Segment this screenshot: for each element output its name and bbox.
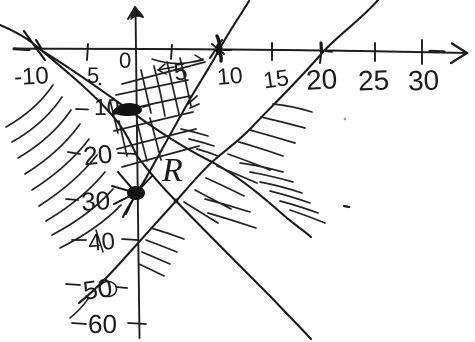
x-axis	[14, 44, 467, 64]
line L3 (steep line through x=10 down to (0,-30))	[123, 1, 249, 217]
label -20 (y axis)	[68, 152, 80, 154]
small dash mark	[344, 206, 349, 207]
star mark at (10,0)	[210, 36, 231, 61]
dash right of blob1	[143, 105, 150, 107]
svg-text:20: 20	[305, 63, 338, 96]
x tick +5	[171, 45, 172, 59]
svg-text:50: 50	[81, 272, 114, 306]
hatch fan lower-left of L1	[6, 85, 121, 248]
hatch strokes above La upper section	[181, 129, 218, 156]
svg-text:20: 20	[82, 139, 114, 172]
svg-text:60: 60	[88, 309, 117, 339]
y tick -20	[118, 153, 136, 154]
x tick 30	[421, 40, 423, 64]
star mark at (20,0)	[320, 43, 332, 63]
hatch comb above La lower-right	[240, 163, 325, 223]
y tick -40	[122, 239, 137, 240]
svg-text:15: 15	[261, 64, 290, 93]
y tick -50	[116, 287, 127, 288]
x tick 15	[271, 43, 273, 60]
svg-text:30: 30	[80, 185, 111, 217]
starburst blob at (0,-30)	[112, 172, 152, 214]
svg-text:-10: -10	[13, 62, 49, 91]
svg-text:5: 5	[87, 63, 99, 88]
y tick -60	[128, 323, 146, 324]
svg-text:10: 10	[216, 62, 244, 90]
flourish tail below -50	[70, 299, 88, 318]
label -30 (y axis)	[66, 199, 78, 200]
svg-text:40: 40	[87, 228, 116, 257]
svg-text:0: 0	[119, 48, 131, 73]
curved arrow near +5	[152, 55, 203, 74]
label -40 (y axis)	[72, 239, 86, 241]
hatch comb right of L2	[139, 104, 312, 276]
blob point at (0,-10)	[112, 103, 142, 116]
arrow barb on L3	[188, 96, 199, 108]
x tick 25	[374, 43, 376, 61]
faint dot	[344, 118, 347, 121]
hatch grid steep strokes near (0,-10)	[110, 58, 191, 161]
label -60 (y axis)	[72, 323, 86, 324]
hatch grid rails near (0,-10)	[113, 62, 205, 167]
line La (gentle line from x=-10 through (0,-10) to lower right)	[41, 50, 311, 237]
dot after 5	[99, 83, 102, 86]
y-axis	[128, 7, 143, 338]
ink knot at L1xL2 crossing	[174, 199, 179, 204]
line L2 (positive-slope line through x=20)	[79, 0, 378, 303]
line L1 (negative-slope line through x=-10)	[0, 25, 311, 339]
label -10 (y axis)	[76, 108, 88, 111]
svg-text:25: 25	[357, 64, 389, 96]
x tick -5	[87, 44, 88, 60]
svg-text:10: 10	[94, 94, 120, 120]
X-mark at (-10,0)	[24, 31, 45, 60]
svg-text:30: 30	[407, 64, 439, 96]
svg-text:R: R	[161, 152, 183, 189]
label -50 (y axis)	[66, 284, 80, 285]
